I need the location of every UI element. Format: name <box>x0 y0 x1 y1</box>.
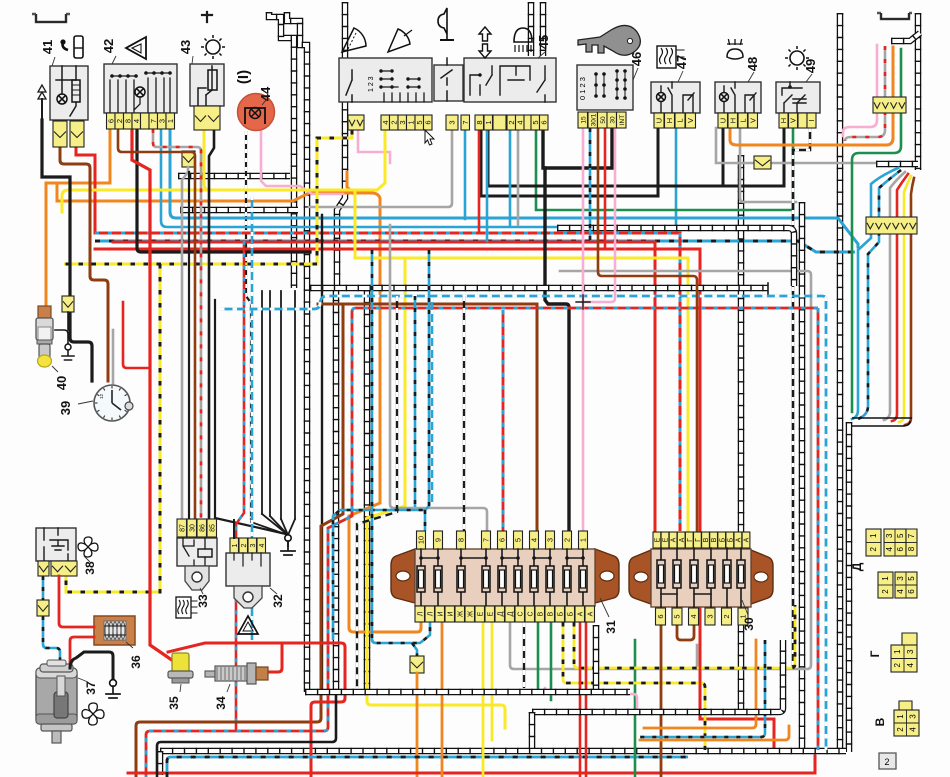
svg-text:Б: Б <box>557 611 564 616</box>
svg-text:3: 3 <box>908 714 917 719</box>
ground star point wires <box>262 514 288 535</box>
wire red-cyandash horizontal to fuse30 <box>95 233 680 531</box>
shielded tube to tachometer (left) <box>269 12 294 288</box>
wire yellowdash right low 1 <box>574 605 795 668</box>
svg-text:Б: Б <box>567 611 574 616</box>
svg-text:32: 32 <box>271 594 285 608</box>
svg-text:Ж: Ж <box>457 610 464 617</box>
svg-text:5: 5 <box>896 533 905 538</box>
pins 4,2,3,1,5,6 of 45 <box>381 115 390 130</box>
svg-text:30: 30 <box>189 524 196 532</box>
svg-text:1: 1 <box>232 543 239 547</box>
column switch 45 right section <box>464 58 556 102</box>
svg-text:И: И <box>447 611 454 616</box>
harness branch connector top right <box>891 33 920 41</box>
svg-text:33: 33 <box>196 594 210 608</box>
svg-text:А: А <box>679 537 686 542</box>
wire pink from comp44 <box>261 130 343 194</box>
wire redcyandash from cluster to bottom <box>146 308 818 777</box>
fuse 31 fuse elements <box>421 549 438 558</box>
svg-text:39: 39 <box>58 401 73 415</box>
wire cyan bottom right <box>640 640 765 737</box>
wire red horizontal 3 lower <box>95 249 774 751</box>
svg-text:2: 2 <box>241 543 248 547</box>
svg-text:1: 1 <box>869 533 878 538</box>
pin 3 horn <box>446 115 458 130</box>
ground symbol under star <box>287 535 289 546</box>
svg-text:L: L <box>738 118 747 122</box>
svg-text:43: 43 <box>178 40 193 54</box>
wire gray mid vertical <box>390 225 487 531</box>
wire pink from sw45 conn <box>358 130 390 163</box>
svg-text:7: 7 <box>461 120 470 124</box>
wire blackdash sw49 down right <box>793 128 810 668</box>
wire cyan-blackdash lower run to connector <box>372 250 430 643</box>
inline connector below fuse <box>410 656 424 673</box>
svg-text:2: 2 <box>563 538 572 542</box>
svg-text:U: U <box>655 118 664 123</box>
wire black thick sw45-ign46 <box>543 128 612 168</box>
fuse 31 top pins <box>417 531 426 549</box>
icon wiper 1 <box>342 28 366 52</box>
svg-text:3: 3 <box>885 533 894 538</box>
svg-text:4: 4 <box>885 546 894 551</box>
instrument harness tube loop upper <box>557 228 794 286</box>
wire gray horizontal right with connector <box>716 128 877 163</box>
bottom tube horizontal 1 <box>305 689 630 696</box>
wire orange below inline connector <box>416 673 419 777</box>
pins of 48 <box>718 113 728 128</box>
wire red trunk from sw42 to bottom <box>132 129 179 680</box>
lamp 44 underhood <box>238 94 275 131</box>
svg-text:H: H <box>779 118 788 123</box>
wire cyan-blackdash feeder to fuse10 <box>333 250 429 640</box>
svg-text:2: 2 <box>884 757 889 767</box>
svg-text:Л: Л <box>427 611 434 616</box>
wire green horizontal to sw49 <box>536 128 793 210</box>
inline connector below 42 <box>182 151 195 167</box>
wire black bottom corner <box>157 690 336 777</box>
svg-text:3: 3 <box>906 649 915 654</box>
wire black sw47 to sw45 <box>481 128 658 196</box>
svg-text:H: H <box>728 118 737 123</box>
wire red to clock <box>123 302 150 368</box>
wire cyan-whitedash mid vertical 3 <box>431 298 434 505</box>
pins of 41 <box>53 121 67 147</box>
svg-text:Ж: Ж <box>467 610 474 617</box>
wire gray horizontal 2 right <box>740 128 796 202</box>
relay 33 <box>177 519 187 537</box>
svg-text:6: 6 <box>656 614 665 618</box>
wire green bottom right long <box>634 640 637 777</box>
svg-text:48: 48 <box>745 57 760 71</box>
warning triangle icon <box>238 616 258 634</box>
inline connector on gray <box>754 156 771 169</box>
svg-text:1: 1 <box>579 538 588 542</box>
wire gray to clock <box>112 330 115 383</box>
wire orange long to fuse31 <box>57 183 421 632</box>
pins of 46 <box>578 112 588 128</box>
icon heater 47 <box>657 46 676 68</box>
wire orange top right to sw48 <box>730 47 893 145</box>
svg-text:30/1: 30/1 <box>590 113 597 126</box>
svg-text:85: 85 <box>209 524 216 532</box>
svg-text:4: 4 <box>908 727 917 732</box>
icon wiper 2 <box>388 29 410 52</box>
svg-text:6: 6 <box>423 120 432 124</box>
wire gray stub from sw45 pin4 <box>517 130 520 225</box>
wire yellow fuse31 bottom pair <box>482 622 485 777</box>
inline connector above 40 <box>62 296 74 312</box>
svg-text:35: 35 <box>167 696 181 710</box>
wire cyan main horizontal <box>170 130 858 247</box>
connector 2pin of 45 <box>348 115 364 130</box>
svg-text:2: 2 <box>881 589 890 594</box>
sensor 34 <box>205 671 217 677</box>
wire black thick vertical to fuse31 <box>545 168 569 531</box>
svg-text:4: 4 <box>259 543 266 547</box>
svg-text:15: 15 <box>580 116 587 124</box>
wire redcyandash right drop <box>817 308 820 750</box>
icon horn 45 <box>438 8 447 34</box>
svg-text:0 1 2 3: 0 1 2 3 <box>578 77 587 100</box>
svg-text:В: В <box>537 611 544 616</box>
wire red 38 to resistor 36 <box>59 576 94 627</box>
connector group D lower <box>878 572 893 598</box>
svg-text:H: H <box>665 118 674 123</box>
far right short tube <box>915 13 922 170</box>
svg-text:8: 8 <box>457 538 466 542</box>
bottom harness drop left <box>157 751 164 775</box>
wire pink junction mark <box>576 295 590 309</box>
harness tube down from shelf <box>846 422 853 752</box>
svg-text:U: U <box>718 118 727 123</box>
svg-text:6: 6 <box>539 120 548 124</box>
svg-text:1 2 3: 1 2 3 <box>368 76 375 92</box>
icon heater small 33 <box>176 597 191 618</box>
wire pink from ign INT merge <box>583 128 615 302</box>
svg-text:41: 41 <box>40 40 55 54</box>
wires relay38 to motor <box>42 576 45 600</box>
wire black-dash from comp44 <box>246 131 251 520</box>
wire gray-reddash to relay33 86 <box>153 129 201 518</box>
svg-text:6: 6 <box>896 546 905 551</box>
wire brown fuse30 pin6 down <box>660 625 663 777</box>
svg-text:2: 2 <box>722 614 731 618</box>
wire black sw48 stub <box>722 128 725 186</box>
tube horizontal stub lower <box>180 207 298 214</box>
fuse block 30 <box>629 550 651 604</box>
svg-text:А: А <box>736 537 743 542</box>
wire blackdash fuse bottom <box>523 622 525 688</box>
lamp 35 brake warning <box>172 653 189 675</box>
wire brown U fuse30 <box>677 625 694 640</box>
svg-text:В: В <box>873 717 887 726</box>
svg-text:И: И <box>437 611 444 616</box>
wire brown mid vertical to bottom left <box>136 304 343 777</box>
shielded tube below cluster 1 <box>333 288 340 692</box>
wire green fuse31 bottom pair <box>537 622 540 688</box>
wire brown from sw41 to clock <box>60 147 108 381</box>
bracket wire of 40 <box>55 330 68 344</box>
svg-text:В: В <box>711 537 718 542</box>
svg-text:86: 86 <box>199 524 206 532</box>
svg-text:4: 4 <box>132 119 141 123</box>
svg-text:А: А <box>587 611 594 616</box>
wire cyan stubs from sw45 pins <box>464 130 467 219</box>
wire red from ign down <box>604 128 607 249</box>
svg-text:Е: Е <box>487 611 494 616</box>
wire red stub from sw45 pin8 <box>478 130 481 233</box>
svg-text:42: 42 <box>101 39 116 53</box>
wire cyan bottom horizontal <box>167 757 688 777</box>
svg-text:Д: Д <box>507 611 514 616</box>
wire cyan-dash right bundle <box>858 170 901 419</box>
motor 37 <box>36 668 77 724</box>
right bundle shelf into harness <box>852 418 912 426</box>
svg-text:3: 3 <box>448 120 457 124</box>
connector V <box>899 701 912 710</box>
wire cyan second horizontal <box>161 128 676 227</box>
svg-text:40: 40 <box>54 376 69 390</box>
icon fog lamp 48 <box>727 49 743 59</box>
wire red bottom bus <box>128 756 815 773</box>
svg-text:1: 1 <box>893 649 902 654</box>
pins of 38 <box>38 561 49 576</box>
svg-text:12: 12 <box>99 393 104 399</box>
wire yellow main horizontal to fuse30 <box>355 258 688 531</box>
fan icon 37 <box>89 703 98 714</box>
wire brown to relay33 30 <box>118 129 195 518</box>
wire red sensor34 stub <box>266 643 282 672</box>
svg-text:44: 44 <box>258 86 273 101</box>
icon cigarette lighter 41 <box>74 36 83 58</box>
svg-text:Б: Б <box>727 537 734 542</box>
wire green top right long vertical <box>852 49 901 412</box>
icon key 46 <box>578 25 640 55</box>
tubes into switch 45 top <box>528 2 535 56</box>
svg-text:Д: Д <box>497 611 504 616</box>
svg-text:34: 34 <box>214 696 228 710</box>
svg-text:30: 30 <box>609 116 616 124</box>
fuse 30 top pins <box>653 532 661 548</box>
wire orange from sw42 to lighter40 <box>46 129 110 309</box>
svg-text:V: V <box>748 118 757 123</box>
wire gray stub up <box>696 645 699 669</box>
svg-text:Л: Л <box>417 611 424 616</box>
wire gray right bundle <box>884 172 905 420</box>
svg-text:Е: Е <box>477 611 484 616</box>
svg-text:6: 6 <box>907 589 916 594</box>
svg-text:10: 10 <box>417 536 426 544</box>
icon sun 49 <box>790 51 804 65</box>
svg-text:V: V <box>686 118 695 123</box>
fuse block 31 <box>391 549 415 603</box>
wire yellow branch vertical <box>367 258 505 728</box>
tube stub joining right harness <box>876 161 918 168</box>
wire cyanwhitedash cluster to right drop <box>220 296 826 750</box>
wire gray tube to sw45 pin3 <box>309 130 452 207</box>
wire yellowdash vertical to relay38 <box>66 264 160 592</box>
shielded tube from cluster <box>364 290 371 692</box>
fuse 31 bottom pins <box>415 606 425 622</box>
wire black sw49 to sw45 pin1 <box>488 128 784 186</box>
svg-text:6: 6 <box>498 538 507 542</box>
icon hazard triangle 42 <box>126 37 146 59</box>
svg-text:37: 37 <box>84 681 98 695</box>
wire red sensors bottom <box>168 643 345 777</box>
bottom tube horizontal 2 <box>532 640 783 712</box>
wire black mid to ground star <box>215 300 286 534</box>
wire cyan right bundle <box>852 168 898 419</box>
voltage regulator 32 <box>230 538 239 553</box>
svg-text:I: I <box>807 119 816 121</box>
svg-text:INT: INT <box>619 115 626 126</box>
mouse cursor artifact <box>425 130 434 145</box>
svg-text:Б: Б <box>719 537 726 542</box>
resistor 36 <box>94 616 135 645</box>
white tube from fuse31 down <box>593 625 600 692</box>
loop lower end hook <box>767 283 769 294</box>
tube horizontal stub upper <box>178 173 290 180</box>
fuse 30 elements <box>660 548 662 608</box>
fuse 30 bottom pins <box>656 608 666 625</box>
wire black vert cluster gnd 1 <box>188 172 190 518</box>
svg-text:50: 50 <box>600 116 607 124</box>
wire cyan-blackdash branch pin10 <box>424 510 427 531</box>
svg-text:Г: Г <box>868 650 882 657</box>
bottom tube drop <box>529 712 536 748</box>
svg-text:47: 47 <box>674 55 689 69</box>
svg-text:L: L <box>676 118 685 122</box>
wire black thick sw42 down <box>137 129 310 252</box>
bottom long harness tube <box>160 748 846 755</box>
connector group D upper <box>866 529 881 556</box>
pin strip of 42 <box>107 113 116 129</box>
connector G <box>902 633 917 645</box>
wire brown from ign to fuse30 <box>598 128 697 531</box>
wire yellow horizontal from sw45 pin4 <box>62 130 385 212</box>
icon sun 43 <box>206 40 220 54</box>
cigarette lighter 40 <box>38 306 51 318</box>
wire gray long loop right <box>510 271 811 669</box>
wire yellow from sw43 <box>204 130 210 190</box>
svg-text:30: 30 <box>742 617 756 631</box>
wire orange bottom right <box>644 640 756 728</box>
wire cyan-whitedash mid vertical <box>251 196 254 640</box>
shielded tube to tachometer (right) <box>287 12 307 692</box>
wire yellowdash right low 2 <box>563 622 705 750</box>
svg-text:49: 49 <box>803 59 818 73</box>
wire pink bottom <box>545 688 637 713</box>
wire brown right bundle <box>905 178 914 425</box>
svg-text:7: 7 <box>482 538 491 542</box>
wire yellow right bundle <box>899 176 911 422</box>
wire orange bottom right 2 <box>640 726 789 740</box>
wire yellow loop dashed (hazard) <box>64 130 352 264</box>
switch 43 instrument light rheostat <box>190 64 224 106</box>
wire red from sw41 pin <box>76 148 95 233</box>
icon headlamp <box>514 28 532 42</box>
svg-text:1: 1 <box>881 576 890 581</box>
wire orange fuse31 bottom 1 <box>441 622 444 777</box>
svg-text:4: 4 <box>689 614 698 618</box>
wire yellow vert sw45 <box>354 192 357 258</box>
svg-text:2: 2 <box>869 546 878 551</box>
switch 42 light switch unit <box>104 64 177 113</box>
wire orange stub corner <box>347 172 353 193</box>
svg-text:4: 4 <box>515 120 524 124</box>
column switch 45 left section <box>339 58 432 102</box>
svg-text:С: С <box>527 611 534 616</box>
top mark T <box>202 12 212 22</box>
wire cyan-blackdash horizontal <box>95 241 855 252</box>
wire cyan-blackdash mid vertical 2 <box>414 296 417 507</box>
wire red right bundle <box>892 174 908 421</box>
svg-text:1: 1 <box>896 714 905 719</box>
pins of 47 <box>654 113 664 128</box>
yellow connector right mid 6pin <box>866 217 917 234</box>
svg-text:4: 4 <box>530 538 539 542</box>
wire red resistor to motor <box>70 637 94 668</box>
svg-text:7: 7 <box>907 533 916 538</box>
svg-text:87: 87 <box>179 524 186 532</box>
wire blackdash mid vertical <box>357 296 397 688</box>
svg-text:1: 1 <box>484 120 493 124</box>
svg-text:4: 4 <box>906 662 915 667</box>
svg-text:4: 4 <box>896 589 905 594</box>
clock 39 <box>94 385 130 421</box>
svg-text:31: 31 <box>604 620 618 634</box>
svg-text:А: А <box>744 537 751 542</box>
wire red fuse31 bottom pair <box>579 622 582 777</box>
wire black mid vertical <box>321 215 323 688</box>
svg-text:5: 5 <box>907 576 916 581</box>
wire redcyandash drop to fuse31 pin6 <box>502 310 505 531</box>
top-left frame bracket <box>32 14 70 22</box>
svg-text:3: 3 <box>250 543 257 547</box>
svg-text:2: 2 <box>893 662 902 667</box>
svg-text:Г: Г <box>687 538 694 542</box>
wire red horizontal 2 to fuse30 <box>113 242 655 531</box>
wire black from sw41 to clock <box>42 120 92 381</box>
fan icon 38 <box>84 537 92 547</box>
pins right group of 45 <box>461 115 470 130</box>
wire pink top right <box>843 45 877 136</box>
svg-text:36: 36 <box>129 655 143 669</box>
svg-text:Е: Е <box>663 537 670 542</box>
svg-text:С: С <box>517 611 524 616</box>
svg-text:3: 3 <box>706 614 715 618</box>
svg-text:38: 38 <box>83 561 97 575</box>
svg-text:5: 5 <box>673 614 682 618</box>
svg-text:3: 3 <box>546 538 555 542</box>
svg-text:Г: Г <box>695 538 702 542</box>
wire brown horizontal upper <box>318 304 537 531</box>
wire cyan branch inline connector <box>412 643 417 657</box>
top-right frame bracket <box>877 13 912 19</box>
tall harness tube far right <box>837 13 844 748</box>
wire blackdash to fuse pin8 <box>463 296 465 531</box>
fog light switch 48 <box>715 82 761 113</box>
page tab 2 bottom right <box>879 753 896 769</box>
wire gray-reddash top right <box>845 46 885 141</box>
light switch 49 <box>776 82 820 113</box>
wire cyandash from ign <box>589 128 592 240</box>
shielded tube center <box>337 2 345 288</box>
instrument harness tube loop lower <box>310 285 768 292</box>
wire black above 32 pin1 <box>233 520 235 538</box>
